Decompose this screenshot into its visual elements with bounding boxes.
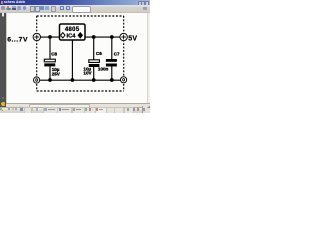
desktop icon white [2,13,4,16]
toolbar icon [23,6,27,10]
wire C6 top lead [93,37,95,60]
ground terminal right [121,77,127,83]
capacitor C6 plates (electrolytic) [89,60,100,63]
toolbar icon: gray printer [1,6,5,10]
window bottom frame / horizontal scrollbar [6,103,151,107]
toolbar icon: blue square [66,6,70,11]
toolbar icon blue [45,6,49,10]
IC4 output symbol (filled diamond) [78,32,83,38]
desktop icon label [2,15,4,18]
quick launch icons [8,108,10,111]
yellow cursor blob [1,102,5,107]
systray [142,106,151,113]
schematic SVG [0,0,150,113]
dashed enclosure right edge [123,16,125,91]
junction IC4 ground pin / ground rail [71,78,75,82]
toolbar icon blue [40,6,44,10]
svg-text:5V: 5V [128,36,137,43]
toolbar icon: color wheel [7,6,9,8]
taskbar [0,107,150,114]
wire C6 bottom lead [93,67,95,80]
scrollbar thumb [29,104,90,109]
toolbar icon pale [30,6,35,12]
toolbar [0,5,150,13]
toolbar icon: blue/dark [12,6,16,10]
window left border [6,13,7,105]
title bar text [4,0,15,4]
svg-text:6...7V: 6...7V [7,36,28,43]
junction C6 / output rail [92,35,96,39]
wire C7 top lead [111,37,113,59]
svg-text:C6: C6 [96,51,102,56]
window buttons [138,1,143,6]
title bar app icon [1,1,3,4]
svg-text:100n: 100n [98,67,109,72]
junction C7 / output rail [110,35,114,39]
dashed enclosure bottom edge [37,90,124,92]
toolbar icon [18,6,21,10]
svg-text:4805: 4805 [65,27,80,33]
junction C8 / input rail [48,35,52,39]
ground terminal left [34,77,40,83]
wire input rail [40,36,59,38]
toolbar icon: blue square M [60,6,64,11]
separator [17,6,18,11]
terminal + input 6...7V [33,33,40,40]
dashed enclosure top edge [37,15,124,17]
desktop strip left [0,13,6,107]
wire C8 top lead [49,37,51,59]
toolbar right icon [143,7,147,10]
junction C7 / ground rail [110,78,114,82]
document page [0,13,150,104]
junction C8 / ground rail [48,78,52,82]
terminal + output 5V [120,33,127,40]
window title bar [0,0,150,5]
toolbar icon pale [35,6,40,12]
wire ground rail [40,79,121,81]
svg-text:25V: 25V [52,71,61,76]
svg-text:C8: C8 [51,51,57,56]
capacitor C8 plates (electrolytic) [44,59,55,62]
start button area [0,108,1,109]
dashed enclosure left edge [36,16,38,91]
toolbar input box [72,6,91,13]
regulator IC4 (4805) body [60,24,86,40]
IC4 input symbol (hollow diamond) [61,33,65,38]
capacitor C7 plates (ceramic) [106,59,117,62]
svg-text:C7: C7 [114,51,120,56]
wire C8 bottom lead [49,66,51,80]
toolbar icon pale [51,6,56,12]
wire IC4 ground pin [71,40,73,80]
taskbar buttons [24,107,32,114]
junction C6 / ground rail [92,78,96,82]
desktop gray mark [2,97,4,99]
svg-text:10V: 10V [83,71,92,76]
wire output rail [85,36,120,38]
right scrollbar strip [147,13,151,104]
svg-text:IC4: IC4 [66,33,76,39]
wire C7 bottom lead [111,66,113,80]
